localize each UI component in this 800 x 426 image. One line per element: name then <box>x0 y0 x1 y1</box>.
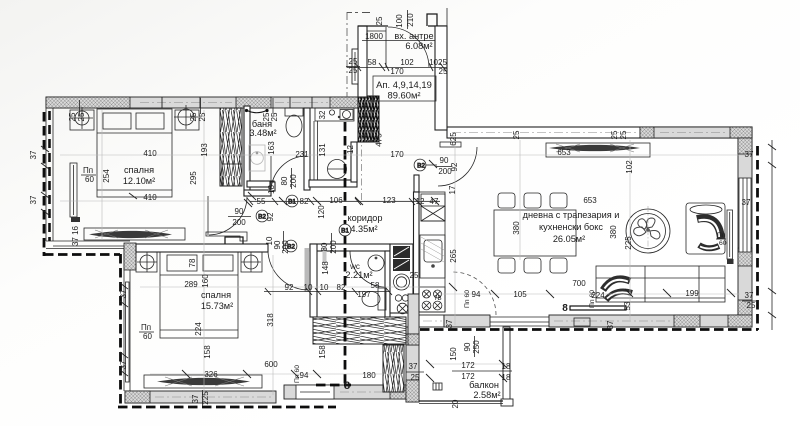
svg-text:200: 200 <box>232 218 246 227</box>
nightstands bed2 <box>136 252 262 272</box>
right dim column <box>768 140 776 330</box>
svg-text:160: 160 <box>201 274 210 288</box>
svg-text:37: 37 <box>119 289 128 298</box>
svg-text:200: 200 <box>329 240 338 254</box>
ceiling light left <box>71 107 93 129</box>
bathroom bottom wall <box>244 190 271 196</box>
dimension chain wc row <box>264 288 392 295</box>
wc toilet <box>362 288 386 310</box>
svg-text:92: 92 <box>285 283 294 292</box>
wc walls <box>310 244 390 317</box>
svg-text:25: 25 <box>610 130 619 139</box>
kitchen sink <box>420 235 445 278</box>
wardrobe bedroom1 <box>220 108 242 186</box>
soffit box bedroom2 top <box>206 232 247 241</box>
radiator bedroom1 <box>70 163 80 222</box>
curtain box bedroom1 <box>84 228 185 240</box>
svg-text:131: 131 <box>318 143 327 157</box>
svg-text:653: 653 <box>583 196 597 205</box>
svg-text:53: 53 <box>623 301 632 310</box>
svg-text:193: 193 <box>200 143 209 157</box>
washbasin bathroom <box>249 145 265 171</box>
svg-text:Пп 60: Пп 60 <box>464 290 471 308</box>
svg-text:дневна с трапезария и: дневна с трапезария и <box>523 210 620 220</box>
svg-text:90: 90 <box>235 207 244 216</box>
B circles <box>256 159 426 252</box>
svg-text:1800: 1800 <box>365 32 383 41</box>
svg-text:Пп: Пп <box>141 323 151 332</box>
radiator living right <box>727 210 734 264</box>
svg-text:4.35м²: 4.35м² <box>350 224 377 234</box>
svg-text:250: 250 <box>472 340 481 354</box>
svg-text:25: 25 <box>619 130 628 139</box>
svg-text:163: 163 <box>267 141 276 155</box>
svg-text:254: 254 <box>102 169 111 183</box>
svg-text:60: 60 <box>143 332 152 341</box>
corridor stub wall <box>247 181 275 191</box>
curtain box bedroom2 <box>144 375 262 388</box>
svg-text:Пп: Пп <box>83 166 93 175</box>
wc sink <box>368 255 384 271</box>
svg-text:102: 102 <box>400 58 414 67</box>
svg-text:700: 700 <box>572 279 586 288</box>
lower south wall with window <box>284 385 406 399</box>
dimension chain corridor <box>247 198 440 205</box>
horizontal dims <box>143 32 756 382</box>
toilet bathroom <box>285 108 303 137</box>
svg-text:25: 25 <box>747 301 756 310</box>
svg-text:25: 25 <box>68 112 77 121</box>
tall wardrobe block <box>383 345 404 392</box>
door arc bedroom2 <box>268 246 327 292</box>
towel rail bathroom <box>245 109 269 113</box>
entrance right wall <box>427 14 447 130</box>
heavy elbow <box>316 384 351 387</box>
round fan table <box>626 206 670 254</box>
niche counter with sink <box>315 108 354 121</box>
svg-text:80: 80 <box>280 176 289 185</box>
svg-text:6.08м²: 6.08м² <box>405 41 432 51</box>
chairs top <box>498 193 567 208</box>
balcony window symbol <box>433 383 442 390</box>
svg-text:37: 37 <box>745 291 754 300</box>
svg-text:коридор: коридор <box>347 213 382 223</box>
door arc bedroom1 <box>208 196 247 235</box>
kitchen shaft column <box>390 244 413 314</box>
svg-text:60: 60 <box>719 240 727 247</box>
svg-text:295: 295 <box>189 171 198 185</box>
black hatched shaft <box>358 96 379 142</box>
svg-text:318: 318 <box>266 313 275 327</box>
corridor lower wall step (bedroom2 top wall) <box>136 237 268 252</box>
door arc living <box>438 142 477 186</box>
svg-text:1025: 1025 <box>429 58 447 67</box>
svg-text:100: 100 <box>395 14 404 28</box>
svg-text:148: 148 <box>321 261 330 275</box>
svg-text:37: 37 <box>745 150 754 159</box>
svg-text:8: 8 <box>562 303 568 314</box>
living left wall / kitchen wall <box>408 175 419 345</box>
svg-text:600: 600 <box>264 360 278 369</box>
svg-text:225: 225 <box>624 236 633 250</box>
svg-text:В1: В1 <box>341 227 349 234</box>
svg-text:10: 10 <box>320 283 329 292</box>
svg-text:172: 172 <box>461 372 475 381</box>
dim line entrance <box>347 8 447 127</box>
sofa <box>596 266 725 302</box>
wardrobe band below wc <box>313 317 406 344</box>
heavy outline step <box>44 253 120 256</box>
svg-text:199: 199 <box>685 289 699 298</box>
svg-text:25: 25 <box>189 112 198 121</box>
bedroom2 left window wall <box>124 243 136 391</box>
entrance top wall <box>358 26 447 31</box>
svg-text:89.60м²: 89.60м² <box>387 90 420 101</box>
svg-text:150: 150 <box>449 347 458 361</box>
svg-text:289: 289 <box>184 280 198 289</box>
svg-text:653: 653 <box>557 148 571 157</box>
svg-text:3.48м²: 3.48м² <box>249 128 276 138</box>
svg-text:32: 32 <box>318 110 327 119</box>
svg-text:265: 265 <box>449 249 458 263</box>
light guide lines <box>60 110 745 400</box>
svg-text:37: 37 <box>191 394 200 403</box>
svg-text:37: 37 <box>119 360 128 369</box>
svg-text:37: 37 <box>29 150 38 159</box>
svg-text:380: 380 <box>512 221 521 235</box>
balcony right wall and floor <box>419 327 513 406</box>
heavy outline left <box>43 112 46 256</box>
wall top band A <box>46 97 358 108</box>
svg-text:2.21м²: 2.21м² <box>345 270 372 280</box>
svg-text:37: 37 <box>445 319 454 328</box>
door arc bathroom <box>271 156 306 190</box>
svg-text:82: 82 <box>337 283 346 292</box>
svg-text:224: 224 <box>194 322 203 336</box>
bathroom left wall <box>244 106 250 196</box>
svg-text:90: 90 <box>440 156 449 165</box>
svg-text:25: 25 <box>270 112 279 121</box>
svg-text:Ап. 4,9,14,19: Ап. 4,9,14,19 <box>376 79 432 90</box>
svg-text:106: 106 <box>329 196 343 205</box>
svg-text:200: 200 <box>289 174 298 188</box>
svg-text:326: 326 <box>204 370 218 379</box>
svg-text:180: 180 <box>362 371 376 380</box>
svg-text:58: 58 <box>368 58 377 67</box>
pedestal sink niche <box>328 160 347 179</box>
right wall <box>738 138 752 327</box>
svg-text:2.58м²: 2.58м² <box>473 390 500 400</box>
lights bed2 <box>137 252 261 272</box>
svg-text:Пп: Пп <box>717 232 726 239</box>
svg-text:В2: В2 <box>417 162 425 169</box>
svg-text:25: 25 <box>439 67 448 76</box>
svg-text:25: 25 <box>349 66 358 75</box>
svg-text:158: 158 <box>203 345 212 359</box>
svg-text:170: 170 <box>390 150 404 159</box>
nightstands bed1 <box>70 110 199 130</box>
svg-text:37: 37 <box>29 195 38 204</box>
svg-text:спалня: спалня <box>124 165 154 175</box>
svg-text:25: 25 <box>198 112 207 121</box>
svg-text:37: 37 <box>409 362 418 371</box>
svg-text:170: 170 <box>390 67 404 76</box>
svg-text:Пп 60: Пп 60 <box>589 290 596 308</box>
section line <box>344 122 347 384</box>
svg-text:25: 25 <box>411 373 420 382</box>
bedroom1 bottom wall <box>46 241 130 249</box>
bedroom2 bottom wall <box>125 391 276 403</box>
svg-text:37: 37 <box>742 198 751 207</box>
balcony door threshold <box>490 317 549 326</box>
ceiling light right <box>174 105 198 129</box>
fraction bars <box>228 10 726 357</box>
bathroom right / niche walls <box>267 108 362 200</box>
wall B living top <box>447 127 752 138</box>
vertical dims <box>29 13 634 409</box>
svg-text:17: 17 <box>448 185 457 194</box>
svg-text:158: 158 <box>318 345 327 359</box>
balcony left wall <box>406 327 419 402</box>
svg-text:78: 78 <box>188 258 197 267</box>
bedroom1 left wall <box>46 108 53 241</box>
svg-text:625: 625 <box>449 132 458 146</box>
heavy outline right <box>756 146 759 330</box>
svg-text:58: 58 <box>371 281 380 290</box>
bed 2 <box>160 252 238 338</box>
balcony door leaf open <box>562 303 626 314</box>
svg-text:26.05м²: 26.05м² <box>553 234 585 244</box>
entry door arc <box>386 27 429 67</box>
svg-text:410: 410 <box>143 149 157 158</box>
svg-text:231: 231 <box>295 150 309 159</box>
svg-text:25: 25 <box>512 130 521 139</box>
svg-text:102: 102 <box>625 160 634 174</box>
door arc wc <box>350 251 386 287</box>
svg-text:94: 94 <box>472 290 481 299</box>
svg-text:380: 380 <box>609 225 618 239</box>
dim ticks scattered <box>41 63 735 382</box>
svg-text:92: 92 <box>266 212 275 221</box>
svg-text:200: 200 <box>281 240 290 254</box>
Ap box <box>373 76 436 101</box>
svg-text:90: 90 <box>463 342 472 351</box>
svg-text:спалня: спалня <box>201 290 231 300</box>
svg-text:37: 37 <box>606 320 615 329</box>
svg-text:25: 25 <box>77 112 86 121</box>
svg-text:8: 8 <box>344 380 350 392</box>
svg-text:123: 123 <box>382 196 396 205</box>
heavy outline bottom <box>118 406 336 409</box>
kitchen run <box>419 192 445 312</box>
bed 1 <box>97 109 172 197</box>
svg-text:172: 172 <box>461 361 475 370</box>
svg-text:25: 25 <box>410 271 419 280</box>
svg-text:кухненски бокс: кухненски бокс <box>539 222 603 232</box>
svg-text:вх. антре: вх. антре <box>394 31 433 41</box>
balcony dim bars <box>80 67 759 407</box>
svg-text:15.73м²: 15.73м² <box>201 301 233 311</box>
chairs bottom <box>498 258 567 273</box>
svg-text:37 16: 37 16 <box>71 225 80 246</box>
svg-text:475: 475 <box>375 133 384 147</box>
svg-text:60: 60 <box>85 175 94 184</box>
dining table <box>494 210 576 256</box>
room labels <box>123 31 620 400</box>
entrance left wall <box>352 26 367 97</box>
heavy outline living bottom <box>420 328 758 331</box>
soffit lens living <box>546 143 650 157</box>
svg-text:25: 25 <box>375 16 384 25</box>
svg-text:балкон: балкон <box>469 380 499 390</box>
kitchen stove <box>419 287 445 312</box>
svg-text:12.10м²: 12.10м² <box>123 176 155 186</box>
svg-text:20: 20 <box>451 399 460 408</box>
armchair <box>686 203 725 254</box>
heavy outline left lower <box>119 254 122 406</box>
Pp labels <box>81 166 727 383</box>
wall D living bottom <box>419 315 752 327</box>
svg-text:12: 12 <box>346 145 355 154</box>
svg-text:105: 105 <box>513 290 527 299</box>
svg-text:80: 80 <box>320 242 329 251</box>
svg-text:120: 120 <box>317 205 326 219</box>
svg-text:410: 410 <box>143 193 157 202</box>
balcony door swing dashed <box>453 272 496 315</box>
